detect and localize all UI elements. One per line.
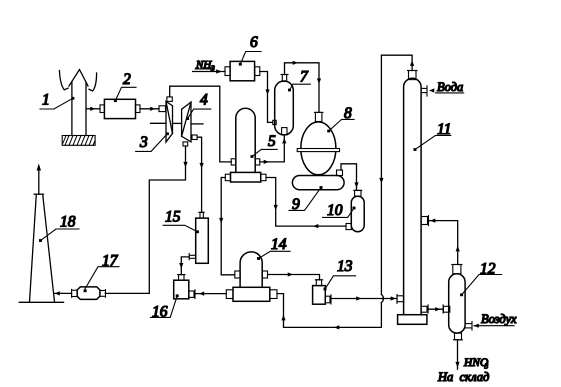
svg-text:6: 6 [250, 34, 258, 51]
wire 1 to 2 [86, 107, 100, 111]
label 13 [324, 258, 356, 290]
svg-text:14: 14 [271, 236, 287, 253]
svg-text:2: 2 [123, 71, 131, 88]
svg-text:Вода: Вода [437, 80, 463, 94]
svg-text:На склад: На склад [437, 370, 489, 384]
svg-text:7: 7 [300, 69, 309, 86]
drum 9 [292, 170, 344, 190]
svg-text:12: 12 [480, 261, 496, 278]
wire 15 to pump 16 [179, 257, 189, 275]
wire 12 top to 11 [421, 216, 460, 265]
label 7 [288, 69, 310, 92]
Vozduh inlet [465, 312, 517, 330]
reactor 8 [297, 112, 339, 174]
turbine 3 [166, 97, 173, 142]
wire 7 top to reactor 8 [285, 61, 322, 113]
svg-text:Воздух: Воздух [481, 312, 517, 326]
column 11 [398, 71, 427, 325]
ground hatch under 1 [62, 136, 95, 146]
label 5 [251, 133, 278, 158]
label 4 [186, 92, 211, 121]
wire 5 to 7 bottom [260, 135, 287, 164]
wire 4 side to absorber 15 [197, 137, 204, 212]
svg-text:18: 18 [60, 214, 76, 231]
flare stack 18 [19, 164, 63, 303]
vessel 5 [231, 108, 260, 172]
svg-text:1: 1 [42, 92, 50, 109]
svg-text:10: 10 [327, 202, 343, 219]
air intake 1 [59, 70, 96, 136]
wire 6 to filter 7 [260, 72, 273, 123]
drum of 5 [225, 172, 266, 182]
wire 4 bottom to 17 and flare 18 [105, 146, 187, 293]
wire 14 to pump 13 [268, 272, 320, 279]
svg-text:15: 15 [165, 209, 181, 226]
HNO3 product out [437, 340, 489, 384]
filter 7 [273, 75, 294, 135]
wire 14 drum to 16 [195, 292, 226, 296]
label 12 [460, 261, 502, 297]
label 6 [239, 34, 261, 66]
label 10 [323, 202, 356, 219]
pump 16 [174, 275, 195, 299]
bleacher column 12 [449, 265, 465, 340]
wire 13 to column 11 [331, 295, 404, 304]
wire 2 to 3 [140, 106, 166, 112]
recycle line 11 top to 14 [277, 55, 414, 329]
tank 14 [235, 252, 268, 287]
label 18 [39, 214, 79, 242]
compressor 4 [182, 102, 198, 146]
Voda inlet [421, 80, 464, 96]
label 8 [327, 105, 354, 132]
label 3 [136, 132, 169, 151]
svg-text:5: 5 [268, 133, 276, 150]
label 17 [84, 253, 119, 293]
wire 11 bottom to 12 [421, 305, 450, 313]
drum of 14 [226, 287, 277, 301]
compressor motor 2 [100, 99, 140, 118]
svg-text:3: 3 [139, 134, 148, 151]
mixer 6 [225, 61, 260, 80]
label 9 [289, 186, 323, 213]
pump 13 [313, 280, 331, 304]
shaft 3-4 [151, 122, 204, 125]
label 15 [163, 209, 199, 234]
label 1 [40, 92, 74, 110]
absorber 15 [189, 212, 208, 263]
label 16 [151, 294, 179, 320]
svg-text:13: 13 [337, 258, 353, 275]
wire 3 top to vessel 5 [170, 86, 232, 162]
label 14 [257, 236, 290, 260]
separator 10 [346, 190, 364, 231]
label 11 [414, 121, 452, 151]
wire drum5 to 10 [266, 178, 346, 229]
svg-text:4: 4 [200, 92, 208, 109]
NH3 feed [193, 59, 225, 74]
wire 9 to separator 10 [341, 164, 359, 191]
scrubber 17 [54, 287, 105, 300]
wire drum5 left down to 14 [219, 178, 235, 275]
label 2 [114, 71, 136, 102]
